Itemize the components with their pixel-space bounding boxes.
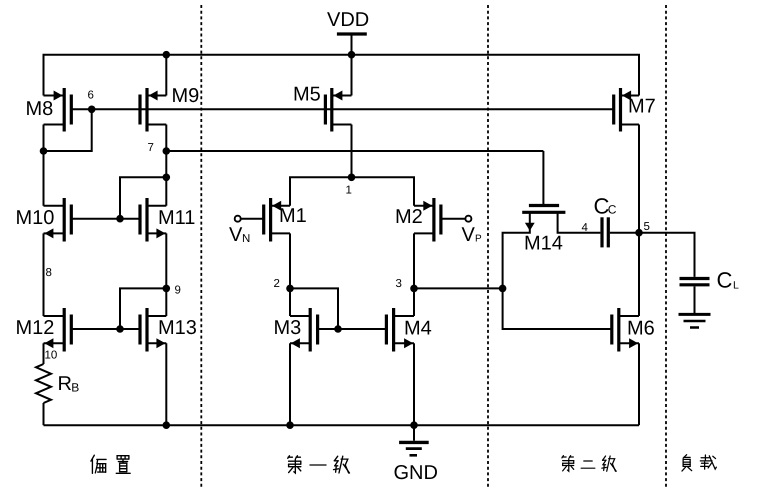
input terminal VN xyxy=(229,216,264,246)
svg-text:M7: M7 xyxy=(628,96,656,118)
GND symbol xyxy=(394,425,438,484)
svg-text:M5: M5 xyxy=(293,84,321,106)
svg-text:M6: M6 xyxy=(627,318,655,340)
input terminal VP xyxy=(441,216,482,246)
wire M14 drain to CC xyxy=(558,212,601,232)
wire M12-M13 gate line xyxy=(71,328,140,330)
junction dot M8 drain node xyxy=(40,147,48,155)
wire M7 drain node5 M6 drain xyxy=(638,125,640,317)
svg-text:R: R xyxy=(58,373,72,395)
wire M12 M13 gate tie riser xyxy=(120,288,166,329)
node 9 dot xyxy=(163,285,171,293)
svg-text:1: 1 xyxy=(346,185,352,197)
node 4 label xyxy=(582,222,589,234)
svg-text:M9: M9 xyxy=(172,85,200,107)
node 3 label xyxy=(396,278,402,290)
svg-text:2: 2 xyxy=(274,278,280,290)
dashed separator stage2/load xyxy=(665,5,667,489)
wire M3 source to rail xyxy=(289,343,291,425)
wire M13 source to ground rail xyxy=(165,343,167,425)
dashed separator bias/stage1 xyxy=(200,5,202,489)
wire VDD top rail xyxy=(44,55,640,96)
svg-text:6: 6 xyxy=(88,90,94,102)
svg-text:GND: GND xyxy=(394,462,438,484)
transistor M3 xyxy=(274,308,318,352)
label stage2 二 xyxy=(581,461,595,468)
transistor M11 xyxy=(140,198,195,242)
junction dot M12-M13 gates xyxy=(116,325,124,333)
svg-text:M3: M3 xyxy=(274,317,302,339)
svg-text:C: C xyxy=(608,203,617,217)
transistor M4 xyxy=(386,308,431,352)
node 9 label xyxy=(175,285,181,297)
svg-text:M11: M11 xyxy=(158,207,195,229)
wire M5 source riser xyxy=(351,55,353,96)
svg-text:M1: M1 xyxy=(279,205,307,227)
transistor M12 xyxy=(16,308,72,352)
resistor RB xyxy=(36,364,79,425)
svg-text:M8: M8 xyxy=(26,98,54,120)
wire ground bottom rail xyxy=(44,424,640,426)
svg-text:7: 7 xyxy=(148,142,154,154)
label stage2 第 xyxy=(562,456,574,472)
transistor M5 xyxy=(293,84,352,132)
node 3 dot xyxy=(410,285,418,293)
svg-text:9: 9 xyxy=(175,285,181,297)
junction dot M11 gate tie xyxy=(163,174,171,182)
wire M9 source riser xyxy=(165,55,167,96)
junction dot M10-M11 gates xyxy=(116,215,124,223)
label stage1 级 xyxy=(334,456,350,473)
node 6 dot xyxy=(88,106,96,114)
node 7 dot xyxy=(163,147,171,155)
wire M8 drain to M10 drain xyxy=(43,125,45,206)
transistor M14 xyxy=(522,206,565,255)
VDD supply symbol xyxy=(327,9,369,55)
transistor M8 xyxy=(26,88,72,132)
wire M3-M4 gate line xyxy=(318,328,387,330)
node 2 label xyxy=(274,278,280,290)
label stage1 一 xyxy=(310,462,326,469)
svg-text:V: V xyxy=(462,224,476,246)
label stage2 级 xyxy=(602,456,616,471)
svg-text:8: 8 xyxy=(46,267,52,279)
wire CL to ground xyxy=(694,286,696,313)
wire M12 source to RB xyxy=(43,343,45,364)
wire M6 source riser xyxy=(638,343,640,425)
svg-text:M14: M14 xyxy=(524,233,563,255)
junction dot rail x166 xyxy=(163,421,171,429)
node 6 label xyxy=(88,90,94,102)
wire M9 drain node7 to M11 drain xyxy=(165,125,167,206)
wire CC to node 5 xyxy=(610,232,639,234)
svg-text:M10: M10 xyxy=(16,207,55,229)
wire to M6 gate xyxy=(503,288,612,329)
label bias 置 xyxy=(116,456,130,474)
wire node 8 M10 source to M12 drain xyxy=(43,233,45,316)
svg-text:B: B xyxy=(71,381,79,395)
svg-text:M12: M12 xyxy=(16,317,55,339)
transistor M2 xyxy=(395,198,441,242)
wire M2 drain node3 M4 drain xyxy=(413,233,415,316)
node dot top rail above M9 xyxy=(163,51,171,59)
transistor M13 xyxy=(140,308,197,352)
svg-text:4: 4 xyxy=(582,222,589,234)
node 8 label xyxy=(46,267,52,279)
wire M4 source to rail xyxy=(413,343,415,425)
transistor M10 xyxy=(16,198,72,242)
junction dot rail x414 xyxy=(410,421,418,429)
label stage1 第 xyxy=(288,456,301,473)
capacitor CC xyxy=(594,194,617,248)
svg-text:VDD: VDD xyxy=(327,9,369,31)
wire node5 to CL xyxy=(639,233,695,277)
wire node 1 tail line xyxy=(290,177,414,206)
wire node7 to M14 gate xyxy=(166,151,543,204)
node 5 dot xyxy=(635,229,643,237)
transistor M1 xyxy=(264,198,307,242)
label load 载 xyxy=(700,455,716,469)
wire bias gate line M8-M9-M5-M7 xyxy=(71,108,613,110)
svg-text:M2: M2 xyxy=(395,206,423,228)
wire M10-M11 gate line xyxy=(71,218,140,220)
svg-text:M13: M13 xyxy=(158,317,197,339)
svg-text:L: L xyxy=(733,280,739,292)
svg-text:M4: M4 xyxy=(404,318,432,340)
label bias 偏 xyxy=(91,455,106,473)
node dot top rail VDD xyxy=(348,51,356,59)
svg-text:V: V xyxy=(229,224,243,246)
node 10 label xyxy=(45,350,58,362)
wire node3 to second stage xyxy=(414,287,503,289)
svg-text:5: 5 xyxy=(644,221,650,233)
ground symbol CL xyxy=(679,314,711,327)
junction dot M3-M4 gates xyxy=(334,325,342,333)
junction dot rail x290 xyxy=(286,421,294,429)
wire node6 to M8 drain xyxy=(44,109,92,151)
svg-text:10: 10 xyxy=(45,350,58,362)
transistor M6 xyxy=(612,308,655,352)
wire M1 drain node2 M3 drain xyxy=(289,233,291,316)
dashed separator stage1/stage2 xyxy=(487,5,489,489)
svg-text:P: P xyxy=(475,234,482,245)
wire node2 to mirror gates xyxy=(290,288,338,329)
wire node 9 M11 source to M13 drain xyxy=(165,233,167,316)
arrow M14 source xyxy=(525,223,535,231)
transistor M9 xyxy=(140,85,199,132)
node 1 dot xyxy=(348,174,356,182)
wire M10 M11 gate tie riser xyxy=(120,177,166,218)
svg-text:3: 3 xyxy=(396,278,402,290)
wire M14 source path xyxy=(503,212,530,288)
label load 负 xyxy=(682,455,692,471)
node 7 label xyxy=(148,142,154,154)
svg-text:C: C xyxy=(717,268,733,293)
wire M5 drain to node 1 xyxy=(351,125,353,178)
node 2 dot xyxy=(286,285,294,293)
svg-text:N: N xyxy=(242,233,250,245)
capacitor CL xyxy=(680,268,740,293)
node 5 label xyxy=(644,221,650,233)
junction dot second stage input xyxy=(499,285,507,293)
node 1 label xyxy=(346,185,352,197)
transistor M7 xyxy=(614,88,656,132)
